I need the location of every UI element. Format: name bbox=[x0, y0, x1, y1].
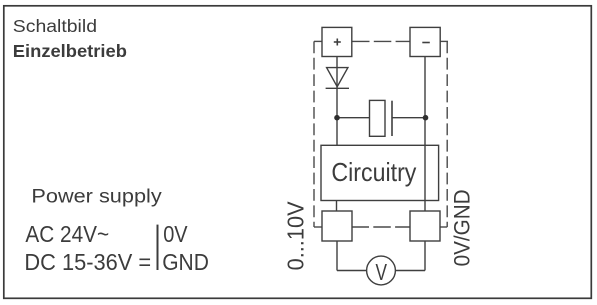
svg-text:0V: 0V bbox=[163, 221, 188, 247]
svg-text:0...10V: 0...10V bbox=[283, 201, 309, 271]
svg-text:GND: GND bbox=[162, 249, 209, 275]
svg-text:AC 24V~: AC 24V~ bbox=[25, 221, 109, 247]
svg-text:0V/GND: 0V/GND bbox=[450, 189, 475, 266]
svg-text:Schaltbild: Schaltbild bbox=[13, 16, 97, 36]
svg-text:DC 15-36V =: DC 15-36V = bbox=[24, 249, 151, 275]
svg-text:Einzelbetrieb: Einzelbetrieb bbox=[13, 41, 127, 61]
svg-text:Circuitry: Circuitry bbox=[331, 157, 416, 187]
svg-text:Power supply: Power supply bbox=[31, 186, 162, 208]
svg-text:V: V bbox=[376, 259, 388, 285]
